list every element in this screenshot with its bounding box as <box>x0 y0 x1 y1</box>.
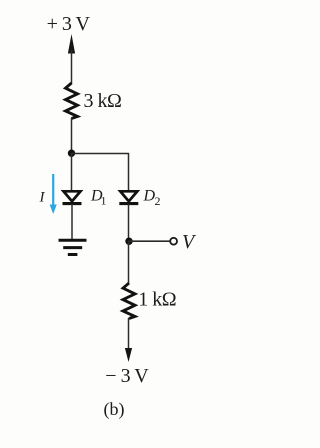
svg-text:+ 3 V: + 3 V <box>47 13 91 35</box>
svg-text:1 kΩ: 1 kΩ <box>138 289 176 311</box>
wire node A to right branch <box>72 154 129 192</box>
diode D1 <box>63 191 82 203</box>
diode D2 <box>119 191 138 203</box>
svg-text:2: 2 <box>155 194 161 208</box>
svg-text:− 3 V: − 3 V <box>105 365 149 387</box>
wire node A down to D1 <box>71 153 73 191</box>
ground <box>59 240 87 254</box>
current arrow I (blue) <box>50 174 57 214</box>
svg-text:(b): (b) <box>104 399 125 420</box>
wire resistor to node A <box>71 118 73 155</box>
wire resistor to -3V arrow <box>128 318 130 352</box>
node B junction dot <box>125 238 132 245</box>
svg-text:3 kΩ: 3 kΩ <box>84 90 122 112</box>
node A junction dot <box>68 150 75 157</box>
wire node B to output terminal <box>129 240 171 242</box>
svg-text:1: 1 <box>101 194 107 208</box>
wire D1 to ground <box>71 204 73 240</box>
resistor R1 3k zigzag <box>66 83 78 119</box>
wire D2 to node B <box>128 204 130 243</box>
svg-text:I: I <box>39 190 46 206</box>
resistor R2 1k zigzag <box>123 283 135 319</box>
wire node B down to resistor <box>128 241 130 284</box>
supply arrow up to +3V <box>68 34 75 84</box>
supply arrow down to -3V <box>125 348 132 362</box>
output terminal circle <box>170 238 177 245</box>
